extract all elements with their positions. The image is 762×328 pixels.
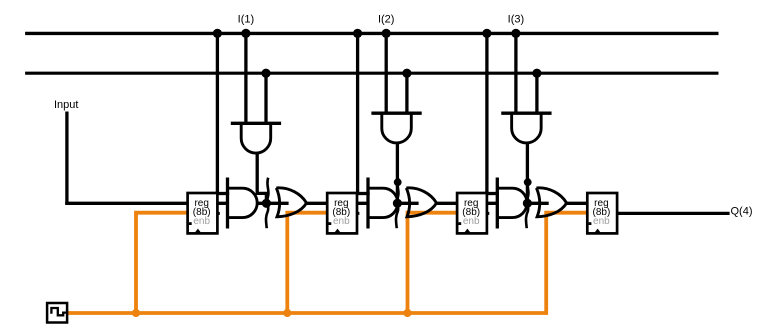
wire Input vertical (65, 112, 68, 205)
xor-gate X2 body outline (406, 188, 436, 217)
wire clock bottom rail (orange) (67, 311, 547, 315)
register R1 reg (8b) box (188, 193, 220, 233)
wire bus1 drop to register R1 corner (stage 1) (216, 33, 219, 194)
and-gate T3 (tap) body fill (512, 113, 542, 143)
register R4 labels (593, 198, 611, 227)
and-gate U2 body outline (368, 188, 398, 217)
xor-gate X1 body outline (276, 188, 306, 217)
and-gate T1 (tap) body outline (241, 123, 271, 153)
register R3 labels (462, 198, 480, 227)
wire bus1 drop to register R2 corner (stage 2) (356, 33, 359, 194)
wire I(2) tap drop from bus1 (385, 33, 388, 113)
xor-gate X3 wavy input tail (526, 178, 529, 229)
xor-gate X1 wavy input tail (266, 178, 269, 229)
bus line 2 (25, 72, 718, 75)
and-gate T2 (tap) body outline (382, 113, 412, 143)
wire Input to register R1 (65, 202, 189, 205)
wire bus2 drop to tap AND T1 (264, 73, 267, 123)
svg-text:Input: Input (54, 99, 78, 111)
wire clock riser to register R1 enable (orange) (136, 213, 190, 313)
wire register R1 output to XOR X1 (215, 202, 288, 205)
junction on bus1 at I(2) tap (382, 29, 391, 38)
and-gate T3 (tap) body outline (512, 113, 542, 143)
junction on bus2 at stage 1 (261, 69, 270, 78)
wire clock riser to register R2 enable (orange) (287, 213, 329, 313)
register R3 reg (8b) box (457, 193, 489, 233)
and-gate U3 input rail (496, 178, 499, 229)
junction node at XOR X1 input (262, 199, 271, 208)
and-gate T3 (tap) back rail (501, 112, 551, 115)
and-gate U1 body outline (228, 188, 258, 217)
register R4 reg (8b) box (587, 193, 619, 233)
junction node at XOR X3 input (523, 199, 532, 208)
svg-text:I(2): I(2) (378, 13, 395, 25)
svg-text:I(1): I(1) (238, 13, 255, 25)
wire I(1) tap drop from bus1 (244, 33, 247, 123)
and-gate U1 input rail (226, 178, 229, 229)
wire tap AND T3 output down to junction (526, 143, 529, 203)
wire jog to AND U2 rail (356, 192, 370, 195)
wire XOR X3 output to register R4 (566, 202, 589, 205)
bus line 1 (25, 32, 718, 35)
wire jog to AND U3 rail (485, 192, 499, 195)
svg-text:enb: enb (193, 216, 210, 227)
register R1 labels (193, 198, 211, 227)
wire bus1 drop to register R3 corner (stage 3) (485, 33, 488, 194)
xor-gate X2 body fill (406, 188, 436, 217)
wire jog to AND U1 rail (216, 192, 229, 195)
junction on bus2 at stage 2 (402, 69, 411, 78)
junction where XOR X3 tail meets drop (524, 178, 532, 186)
junction on clock rail at riser 2 (orange) (283, 309, 291, 317)
junction on bus1 at I(3) tap (511, 29, 520, 38)
register R2 reg (8b) box (327, 193, 359, 233)
svg-text:enb: enb (333, 216, 350, 227)
wire XOR X1 output to register R2 (306, 202, 329, 205)
register R2 labels (332, 198, 350, 227)
wire XOR X2 output to register R3 (436, 202, 459, 205)
xor-gate X2 wavy input tail (396, 178, 399, 229)
xor-gate X1 body fill (276, 188, 306, 217)
and-gate U2 body fill (368, 188, 398, 217)
and-gate U1 body fill (228, 188, 258, 217)
svg-text:I(3): I(3) (508, 13, 525, 25)
and-gate T1 (tap) back rail (231, 122, 281, 125)
wire clock riser to register R3 enable (orange) (408, 213, 460, 313)
wire register R3 output to XOR X3 (485, 202, 549, 205)
svg-text:Q(4): Q(4) (731, 206, 753, 218)
junction on bus1 at stage 3 drop (482, 29, 491, 38)
svg-text:enb: enb (593, 216, 610, 227)
svg-text:enb: enb (463, 216, 480, 227)
and-gate U3 body fill (497, 188, 527, 217)
junction node at XOR X2 input (393, 199, 402, 208)
wire bus2 drop to tap AND T2 (405, 73, 408, 113)
wire bus2 drop to tap AND T3 (535, 73, 538, 113)
and-gate U2 input rail (366, 178, 369, 229)
wire register R4 output to Q(4) (615, 212, 730, 215)
xor-gate X3 body fill (536, 188, 566, 217)
wire tap AND T2 output down to junction (396, 143, 399, 203)
junction on bus2 at stage 3 (532, 69, 541, 78)
xor-gate X3 body outline (536, 188, 566, 217)
and-gate T2 (tap) body fill (382, 113, 412, 143)
wire clock riser to register R4 enable (orange) (546, 213, 589, 315)
junction on bus1 at I(1) tap (241, 29, 250, 38)
wire I(3) tap drop from bus1 (514, 33, 517, 113)
junction on clock rail at riser 1 (orange) (132, 309, 140, 317)
clock source square-wave symbol (47, 303, 67, 323)
junction where XOR X2 tail meets drop (394, 178, 402, 186)
wire register R2 output to XOR X2 (355, 202, 419, 205)
junction on bus1 at stage 1 drop (213, 29, 222, 38)
junction on clock rail at riser 3 (orange) (403, 309, 411, 317)
junction on bus1 at stage 2 drop (353, 29, 362, 38)
and-gate T2 (tap) back rail (371, 112, 421, 115)
wire tap AND T1 output with jog to junction (257, 153, 266, 203)
and-gate U3 body outline (497, 188, 527, 217)
and-gate T1 (tap) body fill (241, 123, 271, 153)
